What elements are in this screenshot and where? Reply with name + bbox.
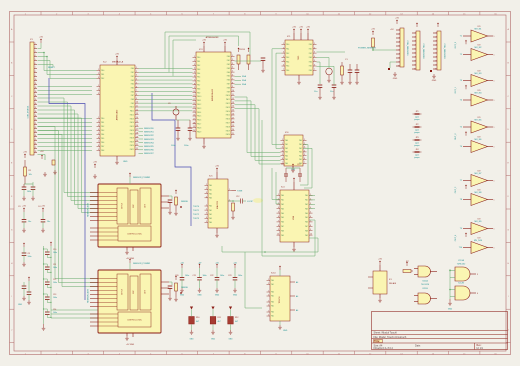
- svg-text:Title:: Title:: [374, 340, 380, 343]
- svg-text:1: 1: [494, 36, 495, 38]
- svg-text:3: 3: [283, 52, 284, 54]
- svg-text:20: 20: [35, 119, 37, 121]
- svg-text:2: 2: [399, 34, 400, 36]
- svg-text:PA0: PA0: [271, 291, 274, 294]
- svg-text:PA8: PA8: [305, 229, 308, 232]
- svg-text:PA7: PA7: [131, 94, 134, 97]
- svg-text:PA7: PA7: [305, 225, 308, 228]
- svg-text:T3: T3: [460, 80, 462, 82]
- svg-text:10: 10: [193, 91, 195, 93]
- svg-text:3: 3: [98, 125, 99, 127]
- svg-text:100n: 100n: [171, 145, 175, 147]
- svg-text:16: 16: [35, 103, 37, 105]
- svg-text:5: 5: [206, 221, 207, 223]
- svg-text:+5V: +5V: [371, 29, 375, 31]
- svg-text:GND: GND: [211, 339, 216, 341]
- svg-text:PA16: PA16: [130, 129, 134, 132]
- svg-text:MV_N2: MV_N2: [475, 47, 483, 49]
- svg-text:SENSE: SENSE: [181, 201, 188, 203]
- svg-text:IC9: IC9: [478, 190, 481, 192]
- svg-text:2: 2: [98, 73, 99, 75]
- svg-text:10: 10: [35, 79, 37, 81]
- svg-text:4: 4: [314, 56, 315, 58]
- svg-text:IC9: IC9: [478, 117, 481, 119]
- svg-text:PA21: PA21: [130, 148, 134, 151]
- svg-text:TOUT0: TOUT0: [193, 206, 199, 208]
- svg-text:PA7: PA7: [101, 145, 104, 148]
- svg-text:8: 8: [436, 61, 437, 63]
- svg-text:PA9: PA9: [305, 234, 308, 237]
- svg-text:A4: A4: [296, 295, 298, 298]
- svg-text:10: 10: [136, 102, 138, 104]
- svg-text:5: 5: [399, 46, 400, 48]
- svg-text:3: 3: [415, 41, 416, 43]
- svg-text:12: 12: [193, 99, 195, 101]
- svg-text:PA6: PA6: [227, 79, 230, 82]
- svg-text:C10: C10: [53, 249, 56, 251]
- svg-text:1: 1: [98, 69, 99, 71]
- svg-text:10: 10: [277, 234, 279, 236]
- svg-text:7: 7: [436, 57, 437, 59]
- svg-text:PA1: PA1: [271, 295, 274, 298]
- svg-text:6: 6: [436, 53, 437, 55]
- svg-text:GND: GND: [393, 78, 398, 80]
- svg-text:T10: T10: [459, 247, 462, 249]
- svg-text:PA16: PA16: [197, 119, 201, 122]
- svg-text:+5V: +5V: [39, 37, 43, 39]
- svg-text:PA0: PA0: [309, 43, 312, 46]
- svg-text:File: Modul_Touch-Circuit.sch: File: Modul_Touch-Circuit.sch: [374, 336, 407, 339]
- svg-text:PA18: PA18: [130, 137, 134, 140]
- svg-text:OUT_4: OUT_4: [455, 234, 457, 241]
- svg-text:9: 9: [310, 229, 311, 231]
- svg-text:7: 7: [399, 54, 400, 56]
- svg-text:5: 5: [282, 154, 283, 156]
- svg-text:18: 18: [35, 111, 37, 113]
- svg-text:1: 1: [282, 139, 283, 141]
- svg-text:J: J: [508, 330, 509, 332]
- svg-text:PA3: PA3: [309, 56, 312, 59]
- svg-text:PA2: PA2: [209, 192, 212, 195]
- svg-text:1: 1: [415, 33, 416, 35]
- svg-text:GND: GND: [448, 309, 453, 311]
- svg-text:GND: GND: [283, 330, 288, 332]
- svg-text:Id: 1/1: Id: 1/1: [477, 348, 484, 350]
- svg-text:2: 2: [98, 89, 99, 91]
- svg-text:PA8: PA8: [227, 86, 230, 89]
- svg-text:IC11A: IC11A: [422, 280, 428, 283]
- svg-text:1: 1: [268, 301, 269, 303]
- svg-text:3: 3: [136, 75, 137, 77]
- svg-text:IC9: IC9: [478, 71, 481, 73]
- svg-text:PA5: PA5: [131, 86, 134, 89]
- svg-text:PA6: PA6: [197, 80, 200, 83]
- svg-text:PA19: PA19: [226, 129, 230, 132]
- svg-text:+5V: +5V: [292, 27, 296, 29]
- svg-text:PA0: PA0: [131, 67, 134, 70]
- svg-text:10u: 10u: [47, 221, 50, 223]
- svg-text:2: 2: [436, 37, 437, 39]
- svg-text:9: 9: [399, 62, 400, 64]
- svg-text:PA17: PA17: [226, 122, 230, 125]
- svg-text:PA2: PA2: [285, 147, 288, 150]
- svg-text:5: 5: [310, 212, 311, 214]
- svg-text:Sheet: /Modul Touch/: Sheet: /Modul Touch/: [374, 332, 398, 335]
- svg-text:18: 18: [193, 122, 195, 124]
- svg-text:OUT_3: OUT_3: [455, 186, 457, 193]
- svg-text:SENSOR4: SENSOR4: [144, 142, 154, 144]
- svg-text:6: 6: [278, 216, 279, 218]
- svg-text:IC9: IC9: [478, 137, 481, 139]
- svg-text:1: 1: [194, 56, 195, 58]
- svg-text:9: 9: [232, 86, 233, 88]
- svg-text:18: 18: [232, 121, 234, 123]
- svg-text:1: 1: [314, 43, 315, 45]
- svg-text:A4: A4: [296, 281, 298, 284]
- svg-text:7: 7: [194, 79, 195, 81]
- svg-text:PA13: PA13: [197, 107, 201, 110]
- svg-text:PA14: PA14: [130, 121, 134, 124]
- svg-text:OUT_0: OUT_0: [455, 41, 457, 48]
- svg-text:1: 1: [268, 279, 269, 281]
- svg-text:7: 7: [304, 162, 305, 164]
- svg-text:6: 6: [477, 293, 478, 295]
- svg-text:PA0: PA0: [271, 311, 274, 314]
- svg-text:100n: 100n: [53, 297, 57, 299]
- svg-text:C21: C21: [193, 275, 196, 277]
- svg-text:1: 1: [98, 117, 99, 119]
- svg-text:PA0: PA0: [197, 56, 200, 59]
- svg-text:19: 19: [232, 125, 234, 127]
- svg-text:T1: T1: [460, 36, 462, 38]
- svg-text:T9: T9: [460, 228, 462, 230]
- svg-text:PA6: PA6: [285, 162, 288, 165]
- svg-text:PA0: PA0: [305, 194, 308, 197]
- svg-text:MV_N8: MV_N8: [475, 192, 483, 194]
- svg-text:6: 6: [304, 158, 305, 160]
- svg-text:PA0: PA0: [271, 279, 274, 282]
- svg-text:10: 10: [310, 234, 312, 236]
- svg-text:SENSOR7: SENSOR7: [144, 153, 154, 155]
- svg-text:PA4: PA4: [197, 72, 200, 75]
- svg-text:4: 4: [35, 55, 36, 57]
- svg-text:2: 2: [206, 209, 207, 211]
- svg-text:2: 2: [136, 71, 137, 73]
- svg-text:9: 9: [436, 65, 437, 67]
- svg-text:PA3: PA3: [197, 68, 200, 71]
- svg-text:5: 5: [278, 212, 279, 214]
- svg-text:7: 7: [35, 67, 36, 69]
- svg-text:PA3: PA3: [131, 79, 134, 82]
- svg-text:IC9: IC9: [478, 26, 481, 28]
- svg-text:9: 9: [415, 65, 416, 67]
- svg-text:2: 2: [268, 305, 269, 307]
- svg-text:MAX232: MAX232: [216, 200, 219, 209]
- svg-text:6: 6: [314, 65, 315, 67]
- svg-text:4: 4: [194, 68, 195, 70]
- svg-text:1: 1: [494, 100, 495, 102]
- svg-text:4: 4: [206, 217, 207, 219]
- svg-text:14: 14: [232, 106, 234, 108]
- svg-text:15: 15: [193, 111, 195, 113]
- svg-text:PA3: PA3: [281, 207, 284, 210]
- svg-text:100n: 100n: [53, 267, 57, 269]
- svg-text:PA11: PA11: [226, 98, 230, 101]
- svg-text:PA5: PA5: [227, 75, 230, 78]
- svg-text:10u: 10u: [28, 221, 31, 223]
- svg-text:C22: C22: [210, 275, 213, 277]
- svg-text:DET: DET: [145, 204, 147, 207]
- svg-text:12: 12: [232, 98, 234, 100]
- svg-text:USB: USB: [293, 215, 295, 220]
- svg-text:IC9: IC9: [478, 219, 481, 221]
- svg-text:1: 1: [494, 55, 495, 57]
- svg-text:GND: GND: [197, 295, 202, 297]
- svg-text:JP3: JP3: [415, 137, 418, 139]
- svg-text:PA2: PA2: [197, 64, 200, 67]
- svg-text:PA13: PA13: [130, 117, 134, 120]
- svg-text:PA8: PA8: [101, 149, 104, 152]
- svg-text:PA8: PA8: [281, 229, 284, 232]
- svg-text:IC9: IC9: [478, 171, 481, 173]
- svg-text:MV_N3: MV_N3: [475, 73, 483, 75]
- svg-text:PA4: PA4: [286, 60, 289, 63]
- svg-text:SENSOR_BUS: SENSOR_BUS: [88, 288, 90, 302]
- svg-text:PA1: PA1: [286, 48, 289, 51]
- svg-text:J: J: [11, 330, 12, 332]
- svg-text:PA1: PA1: [101, 121, 104, 124]
- svg-text:100n: 100n: [53, 312, 57, 314]
- svg-text:3: 3: [35, 51, 36, 53]
- svg-text:5: 5: [283, 60, 284, 62]
- svg-text:+5V: +5V: [41, 206, 45, 208]
- svg-text:JP2: JP2: [415, 124, 418, 126]
- svg-text:C12: C12: [53, 279, 56, 281]
- svg-text:9: 9: [136, 98, 137, 100]
- svg-text:CON_SENSOR1: CON_SENSOR1: [406, 40, 408, 56]
- svg-text:PA11: PA11: [197, 99, 201, 102]
- svg-text:21: 21: [136, 144, 138, 146]
- svg-text:1: 1: [232, 55, 233, 57]
- svg-text:PA3: PA3: [209, 217, 212, 220]
- svg-text:1: 1: [98, 85, 99, 87]
- svg-text:12: 12: [136, 109, 138, 111]
- svg-text:Date:: Date:: [415, 345, 421, 348]
- svg-text:8: 8: [136, 94, 137, 96]
- svg-text:C20: C20: [175, 275, 178, 277]
- svg-text:11: 11: [136, 106, 138, 108]
- svg-text:100n: 100n: [184, 145, 188, 147]
- svg-text:4: 4: [282, 150, 283, 152]
- svg-text:2: 2: [282, 143, 283, 145]
- svg-text:1: 1: [494, 181, 495, 183]
- svg-text:5: 5: [35, 59, 36, 61]
- svg-text:3: 3: [98, 93, 99, 95]
- svg-text:PA5: PA5: [197, 76, 200, 79]
- svg-text:PA4: PA4: [131, 83, 134, 86]
- svg-text:+5V: +5V: [93, 162, 97, 164]
- svg-text:6: 6: [283, 65, 284, 67]
- svg-text:5: 5: [194, 72, 195, 74]
- svg-text:100n: 100n: [27, 191, 31, 193]
- svg-text:1: 1: [494, 81, 495, 83]
- svg-text:6: 6: [194, 76, 195, 78]
- svg-text:13: 13: [193, 103, 195, 105]
- svg-text:IC9: IC9: [478, 90, 481, 92]
- svg-text:5: 5: [232, 71, 233, 73]
- svg-text:14: 14: [136, 117, 138, 119]
- svg-text:PA2: PA2: [286, 52, 289, 55]
- svg-text:PA3: PA3: [286, 56, 289, 59]
- svg-text:17: 17: [232, 117, 234, 119]
- svg-text:74HC132: 74HC132: [457, 264, 466, 266]
- svg-text:23: 23: [35, 131, 37, 133]
- svg-text:PA1: PA1: [209, 209, 212, 212]
- svg-text:+5V: +5V: [378, 259, 382, 261]
- svg-text:PA2: PA2: [305, 203, 308, 206]
- svg-text:9: 9: [35, 75, 36, 77]
- svg-text:18: 18: [136, 132, 138, 134]
- svg-text:PA13: PA13: [226, 106, 230, 109]
- svg-text:PA6: PA6: [131, 90, 134, 93]
- svg-text:C4: C4: [38, 206, 40, 208]
- svg-text:9: 9: [278, 229, 279, 231]
- svg-text:SENSOR_POWER: SENSOR_POWER: [133, 263, 151, 265]
- svg-text:PA7: PA7: [281, 225, 284, 228]
- svg-text:11: 11: [193, 95, 195, 97]
- svg-text:12: 12: [35, 87, 37, 89]
- svg-text:jumper: jumper: [413, 145, 420, 147]
- svg-text:+5V: +5V: [23, 152, 27, 154]
- svg-text:2: 2: [283, 47, 284, 49]
- svg-text:2: 2: [35, 47, 36, 49]
- svg-text:GND: GND: [18, 304, 23, 306]
- svg-text:PA17: PA17: [130, 133, 134, 136]
- svg-text:R12: R12: [235, 317, 238, 319]
- svg-text:PA18: PA18: [197, 126, 201, 129]
- svg-text:16: 16: [136, 125, 138, 127]
- svg-text:19: 19: [35, 115, 37, 117]
- svg-text:PA2: PA2: [281, 203, 284, 206]
- svg-text:PA3: PA3: [209, 197, 212, 200]
- svg-text:jumper: jumper: [413, 157, 420, 159]
- svg-text:8: 8: [232, 82, 233, 84]
- svg-text:4: 4: [304, 150, 305, 152]
- svg-text:IC12B: IC12B: [458, 283, 464, 285]
- svg-text:DET: DET: [145, 290, 147, 293]
- svg-text:6: 6: [399, 50, 400, 52]
- svg-text:TOUCH: TOUCH: [279, 296, 281, 304]
- svg-text:SENSOR1: SENSOR1: [144, 132, 154, 134]
- svg-text:C12: C12: [236, 196, 239, 198]
- svg-text:PA5: PA5: [299, 158, 302, 161]
- svg-text:7: 7: [415, 57, 416, 59]
- svg-text:1: 1: [304, 139, 305, 141]
- svg-text:PA4: PA4: [309, 60, 312, 63]
- svg-text:TOUT3: TOUT3: [193, 218, 199, 220]
- svg-text:IN FILT: IN FILT: [122, 289, 124, 295]
- svg-text:10: 10: [398, 66, 400, 68]
- svg-text:T5: T5: [460, 127, 462, 129]
- svg-text:6: 6: [282, 158, 283, 160]
- svg-text:28: 28: [35, 151, 37, 153]
- svg-text:PA3: PA3: [299, 151, 302, 154]
- svg-text:1: 1: [494, 127, 495, 129]
- svg-text:1: 1: [206, 184, 207, 186]
- svg-text:27: 27: [35, 147, 37, 149]
- svg-text:PA10: PA10: [226, 94, 230, 97]
- svg-text:PA10: PA10: [197, 95, 201, 98]
- svg-text:PA5: PA5: [309, 65, 312, 68]
- svg-text:PA14: PA14: [197, 111, 201, 114]
- svg-text:7: 7: [278, 220, 279, 222]
- svg-text:PA4: PA4: [285, 154, 288, 157]
- svg-text:GND: GND: [190, 339, 195, 341]
- svg-text:PA2: PA2: [209, 213, 212, 216]
- svg-text:PA19: PA19: [130, 140, 134, 143]
- svg-text:2: 2: [206, 188, 207, 190]
- svg-text:7: 7: [136, 90, 137, 92]
- svg-text:IC9: IC9: [478, 238, 481, 240]
- svg-text:SENSOR5: SENSOR5: [144, 146, 154, 148]
- svg-text:+5V GND: +5V GND: [126, 344, 135, 346]
- svg-text:SENSOR_POWER: SENSOR_POWER: [133, 177, 151, 179]
- svg-text:13: 13: [232, 102, 234, 104]
- svg-text:MV_N4: MV_N4: [475, 93, 483, 95]
- svg-text:PA3: PA3: [101, 129, 104, 132]
- svg-text:PA2: PA2: [131, 75, 134, 78]
- svg-text:PA1: PA1: [131, 71, 134, 74]
- svg-text:MV_N6: MV_N6: [475, 139, 483, 141]
- svg-text:PA14: PA14: [226, 110, 230, 113]
- svg-text:OUT_1: OUT_1: [455, 86, 457, 93]
- svg-text:6: 6: [136, 86, 137, 88]
- svg-text:PA7: PA7: [197, 84, 200, 87]
- svg-text:5: 5: [136, 82, 137, 84]
- svg-text:C14: C14: [281, 164, 284, 166]
- svg-text:3: 3: [477, 274, 478, 276]
- svg-text:jumper: jumper: [413, 132, 420, 134]
- svg-text:PA3: PA3: [285, 151, 288, 154]
- svg-text:OUT_2: OUT_2: [455, 133, 457, 140]
- svg-text:+5V: +5V: [306, 27, 310, 29]
- svg-text:4: 4: [399, 42, 400, 44]
- svg-text:PA3: PA3: [305, 207, 308, 210]
- svg-text:8: 8: [278, 225, 279, 227]
- svg-text:19: 19: [136, 136, 138, 138]
- svg-text:7: 7: [232, 78, 233, 80]
- svg-text:MV_N9: MV_N9: [475, 221, 483, 223]
- svg-text:PA8: PA8: [197, 87, 200, 90]
- svg-text:1: 1: [494, 248, 495, 250]
- svg-text:4k7: 4k7: [196, 321, 199, 323]
- svg-text:PA0: PA0: [209, 184, 212, 187]
- svg-text:C23: C23: [228, 275, 231, 277]
- svg-text:CON_SENSOR2: CON_SENSOR2: [422, 43, 424, 59]
- svg-text:+5V: +5V: [22, 206, 26, 208]
- svg-text:100n: 100n: [203, 275, 207, 277]
- svg-text:PA6: PA6: [309, 69, 312, 72]
- svg-text:PA0: PA0: [281, 194, 284, 197]
- svg-text:PA6: PA6: [101, 141, 104, 144]
- svg-text:4: 4: [98, 129, 99, 131]
- svg-text:LOOP: LOOP: [247, 201, 253, 203]
- svg-text:17: 17: [35, 107, 37, 109]
- svg-text:1: 1: [283, 43, 284, 45]
- svg-text:16: 16: [232, 114, 234, 116]
- svg-text:C8: C8: [28, 253, 30, 255]
- svg-text:PA9: PA9: [197, 91, 200, 94]
